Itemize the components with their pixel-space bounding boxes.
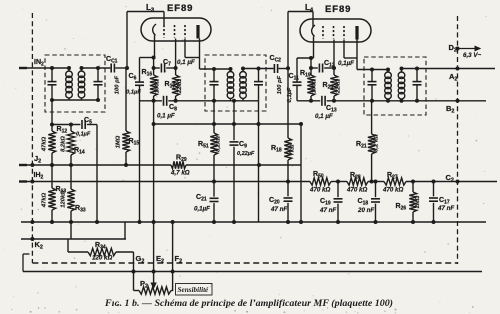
svg-text:8,2kΩ: 8,2kΩ: [61, 136, 67, 152]
svg-text:0,1 µF: 0,1 µF: [177, 59, 195, 66]
svg-text:47 nF: 47 nF: [319, 207, 336, 214]
svg-text:1MΩ: 1MΩ: [116, 135, 122, 148]
svg-text:100Ω: 100Ω: [155, 78, 161, 93]
svg-text:6,3 V~: 6,3 V~: [463, 52, 481, 59]
svg-text:7kΩ: 7kΩ: [290, 144, 296, 155]
svg-text:100 pF: 100 pF: [115, 75, 121, 94]
svg-text:2MΩ: 2MΩ: [415, 195, 421, 209]
svg-text:22kΩ: 22kΩ: [336, 78, 342, 94]
svg-text:20 nF: 20 nF: [357, 207, 374, 214]
svg-text:0,22µF: 0,22µF: [237, 151, 255, 157]
svg-text:0,1µF: 0,1µF: [126, 90, 141, 96]
svg-text:47 nF: 47 nF: [437, 205, 454, 212]
svg-text:100Ω: 100Ω: [312, 78, 318, 93]
svg-text:EF89: EF89: [167, 3, 193, 14]
svg-text:8,2 kΩ: 8,2 kΩ: [374, 134, 380, 152]
svg-text:47kΩ: 47kΩ: [42, 192, 48, 208]
svg-text:47 nF: 47 nF: [270, 206, 287, 213]
svg-text:Sensibilité: Sensibilité: [178, 286, 210, 294]
svg-text:0,1µF: 0,1µF: [76, 132, 91, 138]
svg-text:Fɪɢ. 1 b. — Schéma de principe: Fɪɢ. 1 b. — Schéma de principe de l’ampl…: [104, 298, 393, 308]
svg-text:0,1µF: 0,1µF: [194, 206, 210, 213]
svg-text:0,1 µF: 0,1 µF: [157, 113, 175, 120]
svg-text:470 kΩ: 470 kΩ: [346, 187, 367, 194]
svg-text:470 kΩ: 470 kΩ: [309, 187, 330, 194]
svg-text:47kΩ: 47kΩ: [42, 136, 48, 152]
svg-text:0,1 µF: 0,1 µF: [315, 113, 333, 120]
svg-text:4,7 kΩ: 4,7 kΩ: [170, 170, 190, 177]
svg-text:120 kΩ: 120 kΩ: [92, 255, 112, 262]
svg-text:8,2kΩ: 8,2kΩ: [216, 136, 222, 152]
svg-text:120kΩ: 120kΩ: [61, 190, 67, 208]
svg-text:22kΩ: 22kΩ: [177, 78, 183, 94]
svg-text:100 pF: 100 pF: [277, 75, 283, 94]
svg-text:0,1µF: 0,1µF: [338, 60, 354, 67]
svg-text:EF89: EF89: [325, 4, 351, 15]
svg-text:470 kΩ: 470 kΩ: [382, 187, 403, 194]
